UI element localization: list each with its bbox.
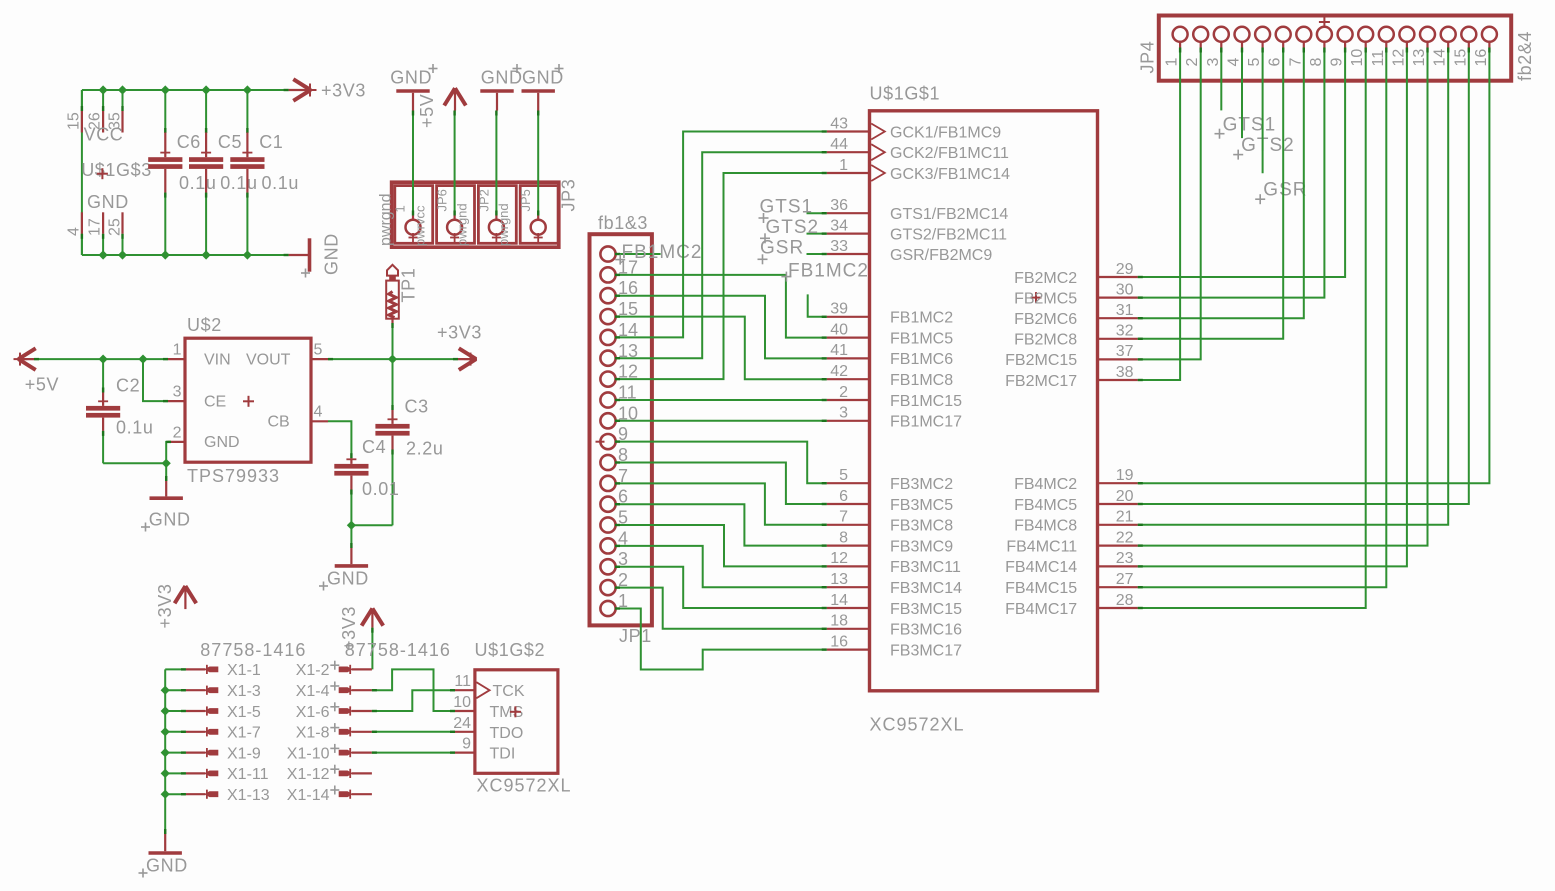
U$1G$1 pin 44 GCK2/FB1MC11: [827, 136, 1009, 162]
JP1 pin circle 16: [600, 278, 638, 303]
svg-text:11: 11: [454, 673, 471, 690]
svg-text:X1-4: X1-4: [296, 683, 330, 700]
JP1 pin circle 8: [600, 445, 628, 470]
svg-text:0.1u: 0.1u: [220, 173, 257, 193]
svg-text:FB2MC15: FB2MC15: [1005, 352, 1077, 369]
svg-text:X1-7: X1-7: [227, 725, 261, 742]
wire C3 bottom to C4 bottom: [351, 524, 392, 526]
wire X1-8 to TDO: [372, 731, 455, 733]
JP1 pin circle 13: [600, 341, 638, 366]
U$1G$1 pin 19 FB4MC2: [1014, 467, 1138, 493]
IC U$1G$3 power gate VCC pins 15 26 35: [66, 106, 124, 145]
capacitor C4 0.01: [328, 421, 399, 525]
svg-text:C3: C3: [405, 397, 429, 417]
svg-text:2: 2: [839, 384, 848, 401]
JP1 pin circle 4: [600, 528, 628, 553]
svg-text:5: 5: [839, 467, 848, 484]
svg-text:JP2: JP2: [476, 189, 491, 211]
svg-text:C1: C1: [259, 132, 283, 152]
svg-text:8: 8: [1308, 58, 1325, 67]
ground symbol GND below C2: [141, 463, 191, 531]
svg-text:12: 12: [1390, 49, 1407, 67]
supply +3V3 arrow floating: [155, 584, 196, 629]
wire X1-10 to TDI: [372, 752, 455, 754]
U$1G$1 pin 3 FB1MC17: [827, 405, 962, 431]
JP4 pin circle 8: [1308, 17, 1332, 67]
svg-text:FB3MC5: FB3MC5: [890, 497, 953, 514]
IC U$1G$2 XC9572XL JTAG box: [475, 640, 572, 795]
U$2 pin 3 CE: [168, 384, 185, 402]
U$1G$1 pin 12 FB3MC11: [827, 550, 961, 576]
junction node VOUT wire: [388, 355, 397, 364]
svg-text:TP1: TP1: [399, 268, 419, 303]
net label GTS1 at chip: [759, 197, 827, 224]
svg-text:38: 38: [1116, 364, 1134, 381]
svg-text:0.01: 0.01: [362, 479, 399, 499]
wire FB2 row y338 to JP4 pin 6: [1138, 48, 1283, 339]
svg-text:1: 1: [839, 157, 848, 174]
svg-text:X1-6: X1-6: [296, 704, 330, 721]
wire JP1-11 to pin2: [615, 399, 827, 401]
U$1G$1 pin 16 FB3MC17: [827, 633, 962, 659]
svg-text:FB4MC5: FB4MC5: [1014, 497, 1077, 514]
ground symbol GND below C4: [319, 525, 369, 590]
wire JP1-3 to pin14: [615, 567, 827, 608]
capacitor C3 2.2u: [375, 359, 443, 525]
svg-text:15: 15: [1452, 49, 1469, 67]
JP1 origin mark: [596, 441, 605, 443]
wire JP1-9 to pin5: [615, 442, 827, 484]
U$1G$2 pin 10 TMS: [453, 694, 475, 711]
svg-text:JP1: JP1: [619, 626, 652, 646]
wire JP1-17 to pin40: [615, 275, 827, 338]
wire VOUT to +3V3: [328, 358, 458, 360]
svg-text:FB2MC6: FB2MC6: [1014, 311, 1077, 328]
svg-text:FB3MC2: FB3MC2: [890, 476, 953, 493]
JP1 pin circle 2: [600, 570, 628, 595]
connector pin X1-2: [296, 661, 372, 680]
svg-text:0.1u: 0.1u: [179, 173, 216, 193]
svg-text:32: 32: [1116, 323, 1134, 340]
wire X1-6 to TCK: [372, 690, 455, 711]
supply +5V arrow above JP3 pin2: [417, 88, 466, 128]
wire FB4 row y545 to JP4 pin 13: [1138, 48, 1428, 546]
svg-text:VCC: VCC: [84, 125, 124, 145]
U$1G$1 pin 42 FB1MC8: [827, 363, 954, 389]
svg-text:FB1MC6: FB1MC6: [890, 351, 953, 368]
svg-text:3: 3: [1205, 58, 1222, 67]
svg-text:GCK2/FB1MC11: GCK2/FB1MC11: [890, 145, 1009, 162]
svg-text:41: 41: [830, 342, 848, 359]
svg-text:4: 4: [1226, 58, 1243, 67]
wire FB4 row y587 to JP4 pin 11: [1138, 48, 1387, 588]
wire +3V3 to X1-2: [371, 628, 373, 670]
svg-text:14: 14: [830, 592, 848, 609]
connector pin X1-7: [186, 725, 261, 742]
label JP3: [559, 179, 579, 212]
svg-text:U$1G$1: U$1G$1: [870, 84, 941, 104]
svg-text:C4: C4: [362, 437, 386, 457]
svg-text:X1-11: X1-11: [227, 766, 269, 783]
JP4 pin circle 2: [1184, 27, 1208, 67]
label pwrgnd left of JP3: [378, 194, 395, 246]
svg-text:fb2&4: fb2&4: [1515, 31, 1535, 81]
svg-text:29: 29: [1116, 261, 1134, 278]
capacitor C5 0.1u: [189, 90, 258, 255]
svg-text:X1-2: X1-2: [296, 662, 330, 679]
svg-text:FB4MC15: FB4MC15: [1005, 580, 1077, 597]
U$1G$1 pin 29 FB2MC2: [1014, 261, 1138, 287]
wire FB2 row y297 to JP4 pin 8: [1138, 48, 1325, 298]
U$2 pin 5 VOUT: [311, 342, 328, 360]
svg-text:FB3MC16: FB3MC16: [890, 622, 962, 639]
svg-text:87758-1416: 87758-1416: [345, 640, 451, 660]
label 87758-1416 right: [345, 640, 451, 660]
U$2 pin 2 GND: [168, 424, 185, 442]
ground symbol GND above JP3 pin1: [390, 64, 437, 111]
junction dots GND bus: [99, 250, 253, 259]
svg-text:31: 31: [1116, 302, 1134, 319]
svg-text:pwrgnd: pwrgnd: [378, 194, 395, 246]
wire JP1-top FB1MC2 stub: [615, 253, 661, 255]
svg-text:12: 12: [830, 550, 848, 567]
net label GTS1 at JP4: [1215, 48, 1277, 139]
svg-text:GCK3/FB1MC14: GCK3/FB1MC14: [890, 166, 1010, 183]
U$1G$1 pin 30 FB2MC5: [1014, 281, 1138, 307]
U$1G$1 pin 36 GTS1/FB2MC14: [827, 197, 1009, 223]
svg-text:GTS2: GTS2: [1241, 135, 1295, 156]
JP4 pin circle 15: [1452, 27, 1476, 67]
svg-text:44: 44: [830, 136, 848, 153]
svg-text:C2: C2: [116, 376, 140, 396]
svg-text:JP4: JP4: [1138, 41, 1158, 74]
connector pin X1-10: [287, 744, 372, 763]
U$1G$1 pin 28 FB4MC17: [1005, 592, 1138, 618]
svg-text:27: 27: [1116, 571, 1134, 588]
wires JP3 pins to supplies: [413, 111, 538, 216]
svg-text:FB4MC14: FB4MC14: [1005, 559, 1077, 576]
U$1G$1 pin 27 FB4MC15: [1005, 571, 1138, 597]
svg-text:XC9572XL: XC9572XL: [870, 715, 965, 735]
svg-text:37: 37: [1116, 343, 1134, 360]
svg-text:X1-12: X1-12: [287, 766, 330, 783]
U$1G$1 pin 22 FB4MC11: [1006, 529, 1137, 555]
svg-text:3: 3: [839, 405, 848, 422]
wire FB2 row y277 to JP4 pin 9: [1138, 48, 1345, 278]
svg-text:FB1MC17: FB1MC17: [890, 414, 962, 431]
svg-text:+3V3: +3V3: [437, 323, 482, 343]
svg-text:FB3MC11: FB3MC11: [890, 559, 961, 576]
U$1G$2 pin 11 TCK: [454, 673, 475, 690]
supply +3V3 arrow top-left: [284, 79, 366, 101]
wire JP1-13 to pin44 GCK2: [615, 152, 827, 358]
connector JP3 outline: [392, 182, 559, 247]
connector JP1 fb1&3 box: [590, 213, 652, 646]
U$1G$1 pin 13 FB3MC14: [827, 571, 962, 597]
JP1 pin circle 6: [600, 487, 628, 512]
svg-text:FB4MC2: FB4MC2: [1014, 476, 1077, 493]
svg-text:TPS79933: TPS79933: [187, 466, 280, 486]
svg-text:VOUT: VOUT: [246, 351, 291, 368]
svg-text:10: 10: [1349, 49, 1366, 67]
U$1G$1 pin 1 GCK3/FB1MC14: [827, 157, 1010, 183]
JP4 pin circle 9: [1329, 27, 1353, 67]
svg-text:+3V3: +3V3: [155, 584, 175, 629]
svg-text:pwrgnd: pwrgnd: [496, 203, 511, 246]
JP4 pin circle 5: [1246, 27, 1270, 67]
svg-text:X1-3: X1-3: [227, 683, 261, 700]
U$1G$1 pin 7 FB3MC8: [827, 509, 954, 535]
svg-text:42: 42: [830, 363, 848, 380]
svg-text:17: 17: [87, 218, 104, 236]
wire JP1-5 to pin12: [615, 525, 827, 566]
svg-text:13: 13: [830, 571, 848, 588]
net label GTS2 at chip: [760, 217, 827, 244]
svg-text:5: 5: [1246, 58, 1263, 67]
svg-text:22: 22: [1116, 529, 1134, 546]
svg-text:2: 2: [1184, 58, 1201, 67]
U$2 pin 4 CB: [311, 404, 328, 422]
svg-text:87758-1416: 87758-1416: [200, 640, 306, 660]
svg-text:GCK1/FB1MC9: GCK1/FB1MC9: [890, 124, 1001, 141]
wire +5V to VIN: [34, 358, 168, 360]
svg-text:GND: GND: [204, 434, 240, 451]
svg-text:FB2MC8: FB2MC8: [1014, 332, 1077, 349]
U$1G$1 pin 2 FB1MC15: [827, 384, 962, 410]
svg-text:X1-9: X1-9: [227, 745, 261, 762]
JP1 pin circle 10: [600, 403, 638, 428]
svg-text:GTS2: GTS2: [766, 217, 820, 238]
wire JP1-7 to pin7: [615, 483, 827, 524]
svg-text:24: 24: [453, 715, 471, 732]
ground symbol GND above JP3 pin4: [522, 64, 564, 111]
connector pin X1-6: [296, 702, 372, 721]
JP1 pin circle 14: [600, 320, 638, 345]
svg-text:14: 14: [1432, 49, 1449, 67]
connector pin X1-11: [186, 766, 269, 783]
connector JP4 fb2&4 box: [1138, 16, 1536, 82]
svg-text:7: 7: [839, 509, 848, 526]
JP4 pin circle 12: [1390, 27, 1414, 67]
svg-text:FB3MC14: FB3MC14: [890, 580, 962, 597]
capacitor C2 0.1u: [86, 359, 153, 463]
wire TP1 to +3V3 net: [392, 323, 394, 359]
wire FB4 row y504 to JP4 pin 15: [1138, 48, 1469, 505]
wire FB4 row y524 to JP4 pin 14: [1138, 48, 1448, 525]
U$1G$2 pin 9 TDI: [455, 736, 475, 753]
svg-text:GTS2/FB2MC11: GTS2/FB2MC11: [890, 226, 1007, 243]
JP4 pin circle 11: [1370, 27, 1394, 67]
wire JP1-10 to pin3: [615, 420, 827, 422]
svg-text:34: 34: [830, 217, 848, 234]
svg-text:+3V3: +3V3: [321, 81, 366, 101]
connector pin X1-4: [296, 682, 372, 701]
label U$1G$3: [81, 160, 152, 180]
svg-text:GND: GND: [322, 233, 342, 275]
svg-text:CE: CE: [204, 393, 226, 410]
JP1 pin circle 5: [600, 508, 628, 533]
svg-text:FB3MC15: FB3MC15: [890, 601, 962, 618]
svg-text:15: 15: [66, 112, 83, 130]
svg-text:TDI: TDI: [490, 746, 516, 763]
svg-text:C5: C5: [218, 132, 242, 152]
wire FB2 row y359 to JP4 pin 2: [1138, 48, 1201, 360]
svg-text:X1-10: X1-10: [287, 745, 330, 762]
svg-text:23: 23: [1116, 550, 1134, 567]
svg-text:FB4MC17: FB4MC17: [1005, 601, 1077, 618]
U$1G$1 pin 39 FB1MC2: [827, 301, 954, 327]
svg-text:43: 43: [830, 115, 848, 132]
capacitor C6 0.1u: [148, 90, 216, 255]
svg-text:XC9572XL: XC9572XL: [477, 776, 572, 796]
svg-text:9: 9: [1329, 58, 1346, 67]
IC U$1G$3 power gate GND pins 4 17 25: [66, 192, 129, 239]
svg-text:6: 6: [1267, 58, 1284, 67]
wire JP1-6 to pin8: [615, 504, 827, 545]
svg-text:TCK: TCK: [493, 683, 525, 700]
U$1G$1 pin 43 GCK1/FB1MC9: [827, 115, 1002, 141]
svg-text:2.2u: 2.2u: [406, 439, 443, 459]
svg-text:8: 8: [839, 529, 848, 546]
svg-text:GSR/FB2MC9: GSR/FB2MC9: [890, 247, 992, 264]
svg-text:pwrvcc: pwrvcc: [413, 205, 428, 246]
net label GSR at chip: [758, 238, 827, 265]
svg-text:7: 7: [1287, 58, 1304, 67]
svg-text:FB1MC15: FB1MC15: [890, 393, 962, 410]
svg-text:GND: GND: [522, 68, 564, 88]
U$1G$1 pin 23 FB4MC14: [1005, 550, 1138, 576]
U$1G$1 pin 33 GSR/FB2MC9: [827, 238, 993, 264]
svg-text:0.1u: 0.1u: [116, 418, 153, 438]
wire GND net below U$2: [103, 442, 171, 463]
JP1 pin circle 15: [600, 299, 638, 324]
svg-text:4: 4: [66, 227, 83, 236]
svg-text:39: 39: [830, 301, 848, 318]
svg-text:FB1MC8: FB1MC8: [890, 372, 953, 389]
IC U$1G$1 XC9572XL main box: [870, 84, 1098, 735]
U$1G$1 pin 5 FB3MC2: [827, 467, 954, 493]
svg-text:GTS1: GTS1: [1223, 115, 1277, 136]
wire FB4 row y483 to JP4 pin 16: [1138, 48, 1490, 484]
U$1G$1 pin 31 FB2MC6: [1014, 302, 1138, 328]
U$1G$2 pin 24 TDO: [453, 715, 475, 732]
wire JP1-12 to pin1 GCK3: [615, 173, 827, 379]
net label GSR at JP4: [1255, 48, 1307, 205]
svg-text:JP5: JP5: [518, 189, 533, 211]
svg-text:FB1MC2: FB1MC2: [788, 261, 869, 282]
svg-text:33: 33: [830, 238, 848, 255]
JP4 pin circle 1: [1164, 27, 1188, 67]
svg-text:X1-14: X1-14: [287, 787, 330, 804]
svg-text:6: 6: [839, 488, 848, 505]
wire JP1-2 to pin18: [615, 588, 827, 629]
JP4 pin circle 6: [1267, 27, 1291, 67]
svg-text:16: 16: [1473, 49, 1490, 67]
svg-text:X1-1: X1-1: [227, 662, 261, 679]
U$1G$1 pin 20 FB4MC5: [1014, 488, 1138, 514]
svg-text:0.1u: 0.1u: [262, 173, 299, 193]
supply +3V3 arrow right of U$2: [437, 323, 482, 370]
JP1 pin circle 12: [600, 362, 638, 387]
junction node GND wire: [162, 459, 171, 468]
svg-text:10: 10: [453, 694, 471, 711]
U$1G$1 pin 21 FB4MC8: [1014, 509, 1138, 535]
svg-text:GND: GND: [87, 192, 129, 212]
JP4 pin circle 7: [1287, 27, 1311, 67]
svg-text:TDO: TDO: [490, 725, 524, 742]
svg-text:FB1MC5: FB1MC5: [890, 330, 953, 347]
svg-text:+5V: +5V: [25, 375, 59, 395]
testpoint TP1: [386, 265, 418, 323]
wire JP1-16 to pin41: [615, 296, 827, 359]
supply +3V3 arrow above X1-2: [339, 606, 383, 651]
JP3 cell labels: [393, 189, 534, 246]
svg-text:3: 3: [173, 384, 182, 401]
svg-text:1: 1: [393, 205, 408, 212]
junction dots X1 bus: [161, 686, 170, 799]
wire JP1-4 to pin13: [615, 546, 827, 587]
wire FB4 row y566 to JP4 pin 12: [1138, 48, 1407, 567]
svg-text:JP6: JP6: [435, 189, 450, 211]
ground symbol GND below X1 bus: [139, 829, 188, 878]
U$1G$1 pin 41 FB1MC6: [827, 342, 954, 368]
connector pin X1-9: [186, 745, 261, 762]
svg-text:13: 13: [1411, 49, 1428, 67]
wire FB2 row y380 to JP4 pin 1: [1138, 48, 1180, 381]
JP4 pin circle 10: [1349, 27, 1373, 67]
svg-text:FB4MC8: FB4MC8: [1014, 518, 1077, 535]
JP1 pin circle 7: [600, 466, 628, 491]
U$1G$1 pin 38 FB2MC17: [1005, 364, 1138, 390]
svg-text:GTS1: GTS1: [760, 197, 814, 218]
JP1 pin circle 1: [600, 591, 628, 616]
JP4 pin circle 16: [1473, 27, 1497, 67]
U$2 pin 1 VIN: [168, 342, 185, 360]
svg-text:4: 4: [314, 404, 323, 421]
junction node below C4: [347, 521, 356, 530]
svg-text:FB4MC11: FB4MC11: [1006, 538, 1077, 555]
connector JP3 pin circles: [406, 216, 546, 243]
connector pin X1-5: [186, 704, 261, 721]
connector pin X1-12: [287, 765, 372, 784]
junction dots VCC bus: [99, 85, 253, 94]
svg-text:30: 30: [1116, 281, 1134, 298]
JP4 pin circle 4: [1226, 27, 1250, 67]
U$1G$1 pin 37 FB2MC15: [1005, 343, 1138, 369]
svg-text:FB3MC9: FB3MC9: [890, 538, 953, 555]
svg-text:25: 25: [107, 218, 124, 236]
U$1G$1 pin 32 FB2MC8: [1014, 323, 1138, 349]
U$1G$1 pin 14 FB3MC15: [827, 592, 962, 618]
U$1G$1 pin 40 FB1MC5: [827, 321, 954, 347]
svg-text:FB3MC8: FB3MC8: [890, 518, 953, 535]
svg-text:U$1G$3: U$1G$3: [81, 160, 152, 180]
wire JP1-8 to pin6: [615, 463, 827, 505]
svg-text:20: 20: [1116, 488, 1134, 505]
svg-text:GSR: GSR: [760, 238, 804, 259]
svg-text:GTS1/FB2MC14: GTS1/FB2MC14: [890, 206, 1008, 223]
svg-text:16: 16: [830, 633, 848, 650]
wire FB2 row y318 to JP4 pin 7: [1138, 48, 1304, 319]
svg-text:1: 1: [1164, 58, 1181, 67]
connector pin X1-14: [287, 786, 372, 805]
svg-text:GND: GND: [146, 856, 188, 876]
svg-text:CB: CB: [268, 414, 290, 431]
U$1G$1 pin 18 FB3MC16: [827, 613, 962, 639]
svg-text:X1-13: X1-13: [227, 787, 270, 804]
U$1G$1 pin 8 FB3MC9: [827, 529, 954, 555]
label 87758-1416 left: [200, 640, 306, 660]
